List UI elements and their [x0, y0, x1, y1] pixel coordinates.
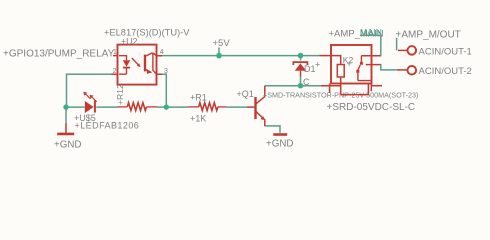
svg-text:+R1: +R1 [190, 92, 207, 102]
svg-text:+GND: +GND [266, 138, 294, 149]
wire left ground lead [65, 107, 67, 124]
pad ACIN/OUT-1 [398, 49, 407, 51]
junction at D1 cathode [298, 53, 304, 59]
relay coil [331, 56, 341, 65]
junction LED anode node [63, 104, 68, 109]
svg-text:D1: D1 [304, 64, 316, 74]
wire AMP_M/OUT tick [396, 38, 398, 51]
svg-text:+1K: +1K [190, 114, 206, 124]
relay contact pad top [360, 62, 363, 65]
svg-text:+: + [315, 59, 320, 69]
wire AMP_MAIN to relay pin [360, 35, 381, 55]
relay corner stub left [329, 84, 331, 94]
wire Q1 collector to relay coil [265, 85, 321, 87]
svg-text:C: C [303, 77, 310, 87]
svg-text:+R12: +R12 [115, 84, 125, 105]
resistor R12 zigzag [117, 106, 127, 108]
svg-text:4: 4 [160, 49, 164, 56]
svg-text:+LEDFAB1206: +LEDFAB1206 [75, 121, 140, 131]
relay bottom contact line [358, 73, 372, 81]
wire relay pin to ACIN/OUT-2 [381, 65, 397, 70]
svg-text:+AMP_M/OUT: +AMP_M/OUT [396, 29, 461, 40]
relay right under wire [372, 85, 383, 87]
wire opto pin3 down to R node [162, 74, 166, 107]
svg-text:1: 1 [113, 49, 117, 56]
opto U2 pin stubs [112, 56, 163, 75]
relay switch common line [361, 55, 381, 57]
opto phototransistor [144, 55, 146, 72]
resistor R1 zigzag [188, 106, 199, 108]
wire LED row [66, 106, 247, 108]
relay contact pad bottom [356, 70, 359, 73]
opto U2 box [118, 45, 157, 85]
svg-text:+U2: +U2 [121, 37, 137, 47]
svg-text:+EL817(S)(D)(TU)-V: +EL817(S)(D)(TU)-V [104, 28, 190, 38]
svg-text:+GND: +GND [54, 139, 82, 150]
svg-text:+SRD-05VDC-SL-C: +SRD-05VDC-SL-C [327, 102, 416, 113]
LED U$5 symbol [85, 101, 94, 113]
ground GND left [65, 124, 67, 133]
relay K2 box [331, 45, 372, 84]
opto light arrow [132, 58, 139, 66]
svg-text:+GPIO13/PUMP_RELAY: +GPIO13/PUMP_RELAY [3, 49, 115, 60]
transistor Q1 [247, 106, 254, 108]
relay pin 1 stub [320, 55, 332, 57]
svg-text:ACIN/OUT-1: ACIN/OUT-1 [419, 46, 472, 57]
svg-text:+Q1: +Q1 [237, 89, 254, 99]
svg-text:2: 2 [113, 68, 117, 75]
relay armature [358, 65, 360, 70]
pad ACIN/OUT-2 [397, 69, 407, 71]
svg-text:3: 3 [164, 68, 168, 75]
svg-text:+: + [347, 59, 352, 69]
wire Q1 emitter to ground [265, 126, 280, 133]
junction D1 anode [298, 83, 304, 89]
svg-text:ACIN/OUT-2: ACIN/OUT-2 [419, 66, 472, 77]
relay corner stub right [370, 84, 372, 92]
wire 5V label tick [218, 48, 220, 56]
wire opto pin2 to LED node [67, 74, 112, 107]
junction R12/R1 node [164, 104, 169, 109]
node 5V rail wire [162, 55, 320, 57]
svg-text:+5V: +5V [213, 38, 231, 49]
diode D1 [300, 56, 302, 61]
opto internal LED [119, 56, 127, 74]
relay under-box wire to coil [321, 85, 341, 87]
junction at 5V label [216, 53, 222, 59]
relay under-box U wire [341, 84, 369, 95]
LED arrows [86, 94, 91, 99]
ground GND right [273, 133, 287, 136]
relay mid pin [366, 64, 382, 66]
